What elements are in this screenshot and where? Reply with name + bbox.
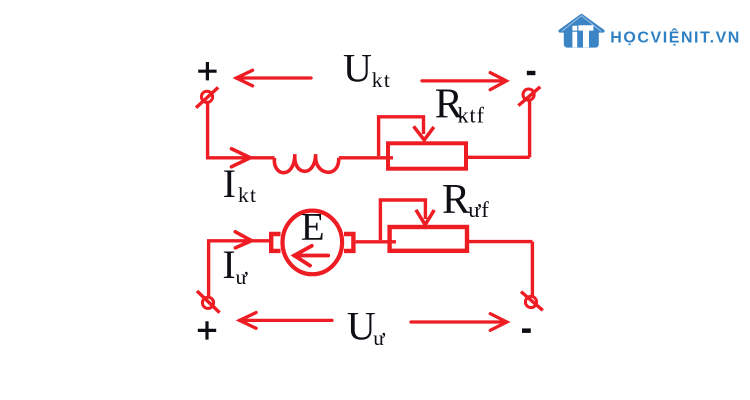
- svg-text:I: I: [222, 242, 235, 287]
- svg-text:ưf: ưf: [468, 197, 489, 222]
- terminal minus sign (bottom right): [522, 328, 531, 333]
- voltage arrow Uu left: [240, 313, 333, 329]
- terminal circle top-left: [196, 87, 218, 107]
- terminal plus sign (top left): [198, 62, 216, 80]
- motor brush right: [344, 234, 353, 251]
- wire inductor to rheostat: [339, 156, 393, 159]
- terminal circle top-right: [518, 87, 540, 106]
- motor armature circle: [283, 211, 343, 275]
- terminal plus sign (bottom left): [198, 321, 216, 339]
- rheostat Rktf loop with arrow: [379, 117, 434, 156]
- rheostat Ruf body: [390, 227, 467, 251]
- svg-text:E: E: [301, 205, 325, 248]
- svg-text:HỌCVIỆNIT.VN: HỌCVIỆNIT.VN: [610, 27, 741, 46]
- wire right vertical (field circuit): [528, 101, 531, 157]
- wire rheostat to right vertical: [466, 156, 530, 159]
- svg-text:kt: kt: [238, 183, 257, 207]
- svg-text:U: U: [343, 45, 372, 90]
- terminal circle bottom-left: [197, 291, 220, 313]
- wire left vertical (field circuit): [206, 103, 209, 159]
- logo hocvienit.vn house icon: [560, 15, 603, 47]
- motor emf arrow: [294, 246, 328, 266]
- svg-text:I: I: [223, 161, 236, 206]
- wire bottom horizontal with current arrow Iu: [207, 232, 271, 248]
- wire top horizontal with current arrow Ikt: [206, 149, 275, 167]
- svg-text:ư: ư: [373, 326, 385, 350]
- voltage arrow Uu right: [411, 314, 507, 331]
- terminal circle bottom-right: [521, 292, 543, 311]
- svg-text:ktf: ktf: [458, 102, 485, 127]
- svg-text:U: U: [347, 304, 376, 349]
- wire motor to rheostat Ruf: [356, 240, 396, 243]
- svg-text:ư: ư: [236, 265, 249, 289]
- wire right vertical (armature circuit): [531, 242, 534, 296]
- inductor field winding: [274, 154, 338, 172]
- voltage arrow Ukt left: [236, 70, 311, 86]
- voltage arrow Ukt right: [422, 73, 506, 90]
- motor brush left: [271, 234, 280, 251]
- terminal minus sign (top right): [527, 71, 536, 75]
- rheostat Rktf body: [388, 143, 466, 168]
- svg-text:kt: kt: [372, 68, 391, 92]
- rheostat Ruf loop with arrow: [380, 200, 434, 240]
- wire rheostat Ruf to right vertical: [467, 240, 532, 243]
- svg-text:R: R: [442, 177, 470, 223]
- wire left vertical (armature circuit): [207, 241, 210, 297]
